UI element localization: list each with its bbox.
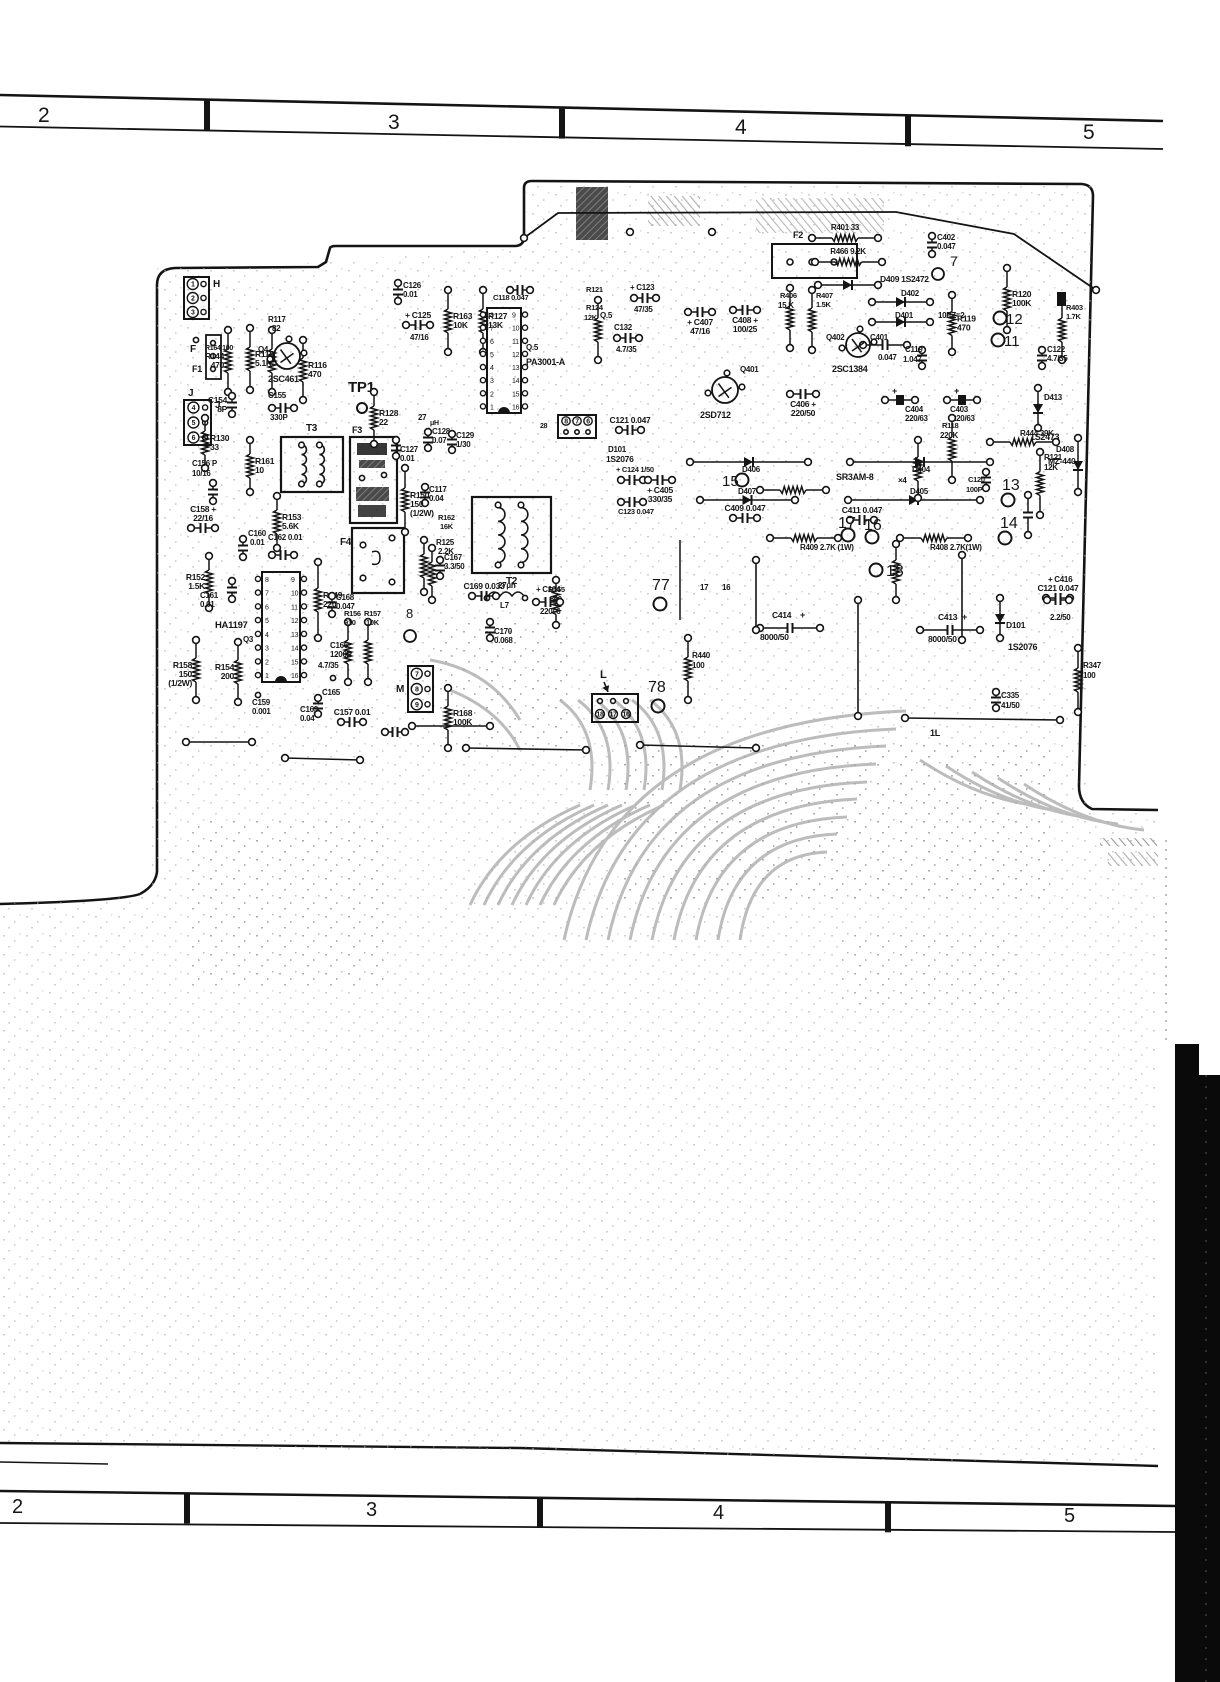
svg-text:+ C416: + C416 (1048, 575, 1073, 584)
svg-text:F1: F1 (192, 364, 202, 374)
svg-text:100: 100 (692, 661, 705, 670)
svg-text:13: 13 (1002, 477, 1020, 494)
svg-text:4: 4 (192, 405, 196, 412)
svg-text:R409 2.7K (1W): R409 2.7K (1W) (800, 543, 854, 552)
svg-text:C120: C120 (968, 475, 985, 484)
svg-text:8: 8 (406, 606, 413, 621)
svg-text:M: M (396, 684, 404, 695)
svg-text:Q3: Q3 (243, 635, 254, 644)
svg-text:1.5K: 1.5K (188, 581, 206, 591)
svg-text:4.7/35: 4.7/35 (318, 661, 339, 670)
svg-text:200: 200 (221, 671, 235, 681)
svg-text:C163: C163 (300, 705, 319, 714)
svg-text:+: + (892, 386, 897, 396)
svg-text:D101: D101 (1006, 620, 1026, 630)
svg-text:77: 77 (652, 577, 670, 594)
svg-text:Q.5: Q.5 (526, 343, 539, 352)
svg-text:2: 2 (490, 391, 494, 398)
svg-text:L: L (600, 669, 607, 681)
svg-text:C413: C413 (938, 612, 958, 622)
svg-text:7: 7 (950, 253, 958, 269)
svg-text:6: 6 (490, 339, 494, 346)
svg-text:100K: 100K (1012, 298, 1032, 308)
svg-text:10K: 10K (453, 320, 469, 330)
svg-text:C402: C402 (937, 233, 956, 242)
svg-text:470: 470 (957, 323, 971, 333)
svg-text:0.07: 0.07 (432, 436, 447, 445)
svg-text:+: + (954, 386, 959, 396)
svg-text:C403: C403 (950, 405, 969, 414)
svg-text:47/16: 47/16 (690, 326, 710, 336)
svg-text:18: 18 (596, 712, 604, 719)
svg-text:0.047: 0.047 (878, 353, 897, 362)
svg-text:C126: C126 (403, 281, 422, 290)
svg-text:22/16: 22/16 (193, 513, 213, 523)
svg-text:D406: D406 (742, 465, 761, 474)
svg-text:C159: C159 (252, 698, 271, 707)
svg-text:8: 8 (415, 687, 419, 694)
svg-text:2: 2 (191, 296, 195, 303)
svg-text:2.2/50: 2.2/50 (1050, 613, 1071, 622)
svg-text:0.04: 0.04 (429, 494, 444, 503)
svg-text:7: 7 (415, 671, 419, 678)
svg-text:1.047: 1.047 (903, 355, 922, 364)
svg-text:27: 27 (418, 413, 427, 422)
svg-text:4: 4 (265, 632, 269, 639)
svg-text:4: 4 (713, 1502, 724, 1524)
svg-text:0.047: 0.047 (937, 242, 956, 251)
svg-text:HA1197: HA1197 (215, 620, 248, 631)
svg-text:R118: R118 (942, 421, 958, 430)
svg-text:6: 6 (265, 604, 269, 611)
svg-text:1.7K: 1.7K (1066, 312, 1082, 321)
svg-text:3: 3 (388, 111, 400, 134)
svg-text:L7: L7 (500, 601, 510, 610)
svg-text:4: 4 (490, 365, 494, 372)
svg-text:C119: C119 (905, 345, 923, 354)
svg-text:1S2076: 1S2076 (606, 454, 634, 464)
svg-text:7: 7 (490, 326, 494, 333)
svg-text:3: 3 (265, 646, 269, 653)
svg-text:33: 33 (210, 442, 219, 452)
svg-text:R401 33: R401 33 (831, 223, 860, 232)
svg-text:910: 910 (344, 618, 356, 627)
svg-text:R124: R124 (586, 303, 604, 312)
svg-text:15: 15 (512, 391, 520, 398)
svg-text:10EZ=2: 10EZ=2 (938, 311, 965, 320)
svg-text:220/ 6: 220/ 6 (540, 607, 561, 616)
svg-text:C160: C160 (248, 529, 267, 538)
svg-text:5: 5 (1083, 121, 1095, 144)
svg-text:C162 0.01: C162 0.01 (268, 533, 303, 542)
svg-text:C335: C335 (1001, 691, 1020, 700)
svg-text:C132: C132 (614, 323, 633, 332)
svg-text:F4: F4 (340, 537, 352, 548)
svg-text:C121 0.047: C121 0.047 (610, 415, 652, 425)
svg-text:41/50: 41/50 (1001, 701, 1020, 710)
svg-text:16: 16 (291, 673, 299, 680)
svg-text:8P: 8P (217, 404, 227, 414)
svg-text:F: F (190, 344, 196, 355)
svg-text:2SC1384: 2SC1384 (832, 364, 868, 374)
svg-text:5: 5 (192, 420, 196, 427)
svg-text:R440: R440 (692, 651, 711, 660)
svg-text:100/25: 100/25 (733, 324, 758, 334)
svg-text:8000/50: 8000/50 (760, 632, 789, 642)
svg-text:16: 16 (622, 712, 630, 719)
svg-text:16K: 16K (440, 522, 454, 531)
svg-text:R444 39K: R444 39K (1020, 429, 1054, 438)
svg-text:1.5K: 1.5K (816, 300, 832, 309)
svg-text:2: 2 (38, 104, 50, 127)
svg-text:Q.5: Q.5 (600, 311, 613, 320)
svg-text:0.001: 0.001 (252, 707, 271, 716)
svg-text:13: 13 (512, 365, 520, 372)
svg-text:8: 8 (265, 577, 269, 584)
svg-text:R117: R117 (268, 315, 286, 324)
svg-text:11: 11 (1004, 333, 1020, 350)
svg-text:D402: D402 (901, 289, 920, 298)
svg-text:47/16: 47/16 (410, 333, 429, 342)
svg-text:9: 9 (291, 577, 295, 584)
svg-text:SR3AM-8: SR3AM-8 (836, 472, 874, 482)
svg-text:470: 470 (211, 360, 225, 370)
svg-text:28: 28 (540, 423, 548, 430)
svg-text:12: 12 (512, 352, 520, 359)
svg-text:C129: C129 (456, 431, 475, 440)
svg-text:17: 17 (700, 583, 709, 592)
svg-text:C411 0.047: C411 0.047 (842, 505, 883, 515)
svg-text:2.2K: 2.2K (438, 547, 454, 556)
svg-text:13: 13 (291, 632, 299, 639)
svg-text:330P: 330P (270, 413, 288, 422)
svg-text:10: 10 (291, 591, 299, 598)
svg-text:16: 16 (864, 517, 882, 534)
svg-text:2: 2 (265, 659, 269, 666)
svg-text:3: 3 (490, 378, 494, 385)
svg-text:D407: D407 (738, 487, 757, 496)
svg-text:6: 6 (586, 419, 590, 426)
svg-text:78: 78 (648, 679, 666, 696)
svg-text:+ C124 1/50: + C124 1/50 (616, 465, 654, 474)
svg-text:14: 14 (291, 646, 299, 653)
svg-text:7: 7 (575, 419, 579, 426)
svg-text:+ C125: + C125 (405, 310, 431, 320)
svg-text:C117: C117 (429, 485, 447, 494)
svg-text:+: + (800, 610, 805, 620)
svg-text:Q401: Q401 (740, 365, 759, 374)
svg-text:R408 2.7K(1W): R408 2.7K(1W) (930, 543, 982, 552)
svg-text:12K: 12K (584, 313, 598, 322)
svg-text:C121 0.047: C121 0.047 (1038, 583, 1080, 593)
svg-text:T2: T2 (506, 576, 518, 587)
svg-text:17: 17 (838, 515, 856, 532)
svg-text:5: 5 (1064, 1505, 1075, 1527)
svg-text:2SD712: 2SD712 (700, 410, 731, 420)
svg-text:D401: D401 (895, 311, 914, 320)
svg-text:3: 3 (366, 1499, 377, 1521)
svg-text:R121: R121 (1044, 453, 1063, 462)
svg-text:J: J (188, 388, 193, 399)
svg-text:0.01: 0.01 (250, 538, 265, 547)
svg-text:Q4: Q4 (258, 345, 269, 354)
svg-text:R407: R407 (816, 291, 833, 300)
svg-text:C122: C122 (1047, 345, 1066, 354)
svg-text:16: 16 (722, 583, 731, 592)
svg-text:C409 0.047: C409 0.047 (725, 503, 767, 513)
svg-text:R466 9.2K: R466 9.2K (830, 247, 866, 256)
svg-text:11: 11 (291, 604, 298, 611)
svg-text:C169 0.033: C169 0.033 (464, 581, 506, 591)
svg-text:0.04: 0.04 (300, 714, 315, 723)
svg-text:D101: D101 (608, 445, 627, 454)
svg-text:100P: 100P (966, 485, 983, 494)
svg-text:1S2076: 1S2076 (1008, 642, 1038, 652)
svg-text:14: 14 (512, 378, 520, 385)
svg-text:330/35: 330/35 (648, 494, 673, 504)
svg-text:2: 2 (12, 1496, 23, 1518)
svg-text:F3: F3 (352, 425, 362, 435)
svg-text:Q402: Q402 (826, 333, 845, 342)
svg-text:0.01: 0.01 (403, 290, 418, 299)
svg-text:(1/2W): (1/2W) (410, 508, 434, 518)
svg-text:12: 12 (291, 618, 299, 625)
svg-text:1: 1 (490, 404, 494, 411)
svg-text:R121: R121 (586, 285, 603, 294)
svg-text:T3: T3 (306, 423, 318, 434)
svg-text:(1/2W): (1/2W) (168, 678, 192, 688)
svg-text:82: 82 (272, 324, 281, 333)
svg-text:3.3/50: 3.3/50 (444, 562, 465, 571)
svg-text:C404: C404 (905, 405, 924, 414)
svg-text:1: 1 (191, 282, 195, 289)
svg-text:R406: R406 (780, 291, 797, 300)
svg-text:D413: D413 (1044, 393, 1063, 402)
svg-text:μH: μH (430, 420, 439, 427)
svg-text:D409 1S2472: D409 1S2472 (880, 274, 929, 284)
svg-text:470: 470 (308, 369, 322, 379)
svg-text:4.7/35: 4.7/35 (616, 345, 637, 354)
svg-text:9: 9 (415, 702, 419, 709)
svg-text:220/63: 220/63 (905, 414, 929, 423)
svg-text:+ C164: + C164 (536, 585, 561, 594)
svg-text:R156: R156 (344, 609, 361, 618)
svg-text:5.6K: 5.6K (282, 521, 300, 531)
svg-text:10: 10 (512, 326, 520, 333)
svg-text:7: 7 (265, 591, 269, 598)
svg-text:12: 12 (1006, 311, 1023, 328)
svg-text:2SC461: 2SC461 (268, 374, 299, 384)
svg-text:10: 10 (255, 465, 264, 475)
svg-text:8000/50: 8000/50 (928, 634, 957, 644)
svg-text:+ C123: + C123 (630, 283, 655, 292)
svg-text:11: 11 (512, 339, 519, 346)
svg-text:PA3001-A: PA3001-A (526, 357, 566, 367)
svg-text:R403: R403 (1066, 303, 1083, 312)
svg-text:10/16: 10/16 (192, 469, 211, 478)
svg-text:C123 0.047: C123 0.047 (618, 507, 654, 516)
svg-text:6: 6 (192, 435, 196, 442)
svg-text:1/30: 1/30 (456, 440, 471, 449)
svg-text:F2: F2 (793, 230, 803, 240)
svg-text:C161: C161 (200, 591, 219, 600)
svg-text:C168: C168 (336, 593, 355, 602)
svg-text:8: 8 (490, 313, 494, 320)
svg-text:R157: R157 (364, 609, 381, 618)
svg-text:3: 3 (191, 310, 195, 317)
svg-text:×4: ×4 (898, 476, 907, 485)
svg-text:100: 100 (1083, 671, 1096, 680)
svg-text:15 K: 15 K (778, 301, 794, 310)
svg-text:47/35: 47/35 (634, 305, 653, 314)
svg-text:R125: R125 (436, 538, 455, 547)
svg-text:4.7/35: 4.7/35 (1047, 354, 1068, 363)
svg-text:15: 15 (291, 659, 299, 666)
svg-text:H: H (213, 279, 220, 290)
svg-text:C156 P: C156 P (192, 459, 218, 468)
svg-text:0.01: 0.01 (200, 600, 215, 609)
svg-text:8: 8 (564, 419, 568, 426)
svg-text:1L: 1L (930, 728, 941, 738)
svg-text:9: 9 (512, 313, 516, 320)
svg-text:5: 5 (490, 352, 494, 359)
svg-text:16: 16 (512, 404, 520, 411)
svg-text:5: 5 (265, 618, 269, 625)
svg-text:C414: C414 (772, 610, 792, 620)
svg-text:14: 14 (1000, 515, 1018, 532)
svg-text:220/50: 220/50 (791, 408, 816, 418)
svg-text:C155: C155 (268, 391, 287, 400)
svg-text:C165: C165 (322, 688, 341, 697)
svg-text:4: 4 (735, 116, 747, 139)
svg-text:C170: C170 (494, 627, 513, 636)
svg-text:R162: R162 (438, 513, 455, 522)
svg-text:0.068: 0.068 (494, 636, 513, 645)
svg-text:15: 15 (722, 473, 739, 490)
svg-text:0.01: 0.01 (400, 454, 415, 463)
svg-text:R347: R347 (1083, 661, 1102, 670)
svg-text:220K: 220K (940, 431, 958, 440)
svg-text:C127: C127 (400, 445, 419, 454)
svg-text:1: 1 (265, 673, 269, 680)
svg-text:10K: 10K (366, 618, 380, 627)
svg-text:17: 17 (609, 712, 617, 719)
svg-text:12K: 12K (1044, 463, 1058, 472)
svg-text:C157 0.01: C157 0.01 (334, 707, 371, 717)
svg-text:22: 22 (379, 417, 388, 427)
